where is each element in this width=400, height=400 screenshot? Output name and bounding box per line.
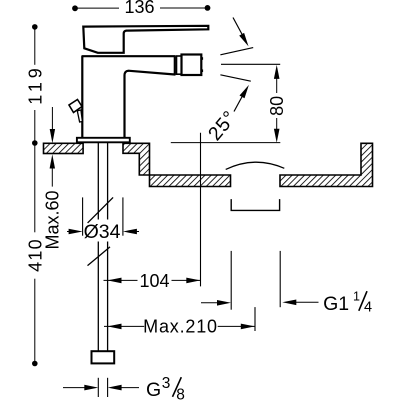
supply pipe left line [97, 142, 99, 351]
extension line drain center [254, 307, 256, 331]
dimension bottom dot [32, 361, 38, 367]
lower leader arrow [234, 94, 244, 112]
svg-text:Max.210: Max.210 [143, 317, 218, 337]
dimension 104 left arrow [108, 278, 122, 284]
svg-text:1: 1 [353, 289, 360, 303]
dimension 80 line [276, 75, 278, 132]
dimension top dot [32, 24, 38, 30]
counter level reference line [171, 142, 280, 144]
spray fan lower line [220, 75, 250, 81]
faucet handle lever [83, 26, 208, 53]
pop-up waste stem [77, 110, 82, 122]
spray fan middle line [221, 63, 280, 65]
dimension counter dot [32, 140, 38, 146]
dimension G3/8 right tick [107, 378, 109, 397]
dimension G1 1/4 arrow segment right [287, 301, 319, 303]
dimension Max.210 line [104, 325, 255, 327]
svg-text:136: 136 [124, 0, 154, 17]
svg-text:4: 4 [364, 300, 372, 316]
dimension O34 right tick [122, 197, 124, 235]
dimension G1 1/4 arrow segment left [201, 302, 226, 304]
dimension 136 right dot [205, 5, 211, 11]
countertop step section and basin floor left [123, 143, 231, 186]
aerator nub bottom [201, 69, 203, 72]
aerator nub top [201, 57, 203, 60]
dimension 119/410 vertical line [34, 27, 36, 364]
G3/8 nut [92, 351, 115, 363]
faucet body and spout [82, 56, 175, 138]
extension line drain right [279, 251, 281, 307]
dimension Max.210 left arrow [108, 324, 122, 330]
water surface arc [226, 162, 285, 169]
dimension 104 right arrow [186, 278, 200, 284]
spray fan upper line [220, 48, 253, 55]
dimension Max.60 lower arrow [51, 168, 53, 187]
pop-up waste knob [69, 100, 82, 113]
pipe break slash upper [88, 197, 114, 223]
faucet base plate [77, 138, 130, 143]
svg-text:Ø34: Ø34 [84, 221, 121, 243]
dimension Max.210 right arrow [241, 324, 255, 330]
dimension 136 left dot [72, 5, 78, 11]
dimension 80 top arrow [274, 65, 280, 79]
svg-text:104: 104 [139, 271, 169, 291]
svg-text:80: 80 [267, 96, 287, 116]
dimension 80 bottom arrow [274, 129, 280, 143]
dimension G3/8 left tick [97, 378, 99, 397]
svg-text:Max.60: Max.60 [43, 190, 63, 249]
countertop left slab [44, 143, 84, 153]
dimension O34 left arrow [67, 231, 72, 233]
pipe break slash lower [88, 247, 111, 266]
extension line drain left [230, 251, 232, 310]
aerator box [182, 55, 202, 76]
aerator connector [177, 56, 182, 74]
dimension O34 right arrow [133, 231, 139, 233]
svg-text:G1: G1 [323, 293, 349, 315]
dimension O34 left tick [82, 197, 84, 235]
dimension 136 line [75, 7, 208, 9]
dimension G3/8 left arrow [63, 387, 88, 389]
upper leader arrow [233, 18, 244, 38]
basin floor right and riser [280, 143, 373, 186]
drain bracket [231, 199, 279, 210]
dimension G3/8 right arrow [118, 387, 139, 389]
svg-text:8: 8 [176, 387, 185, 400]
svg-text:3: 3 [162, 375, 171, 392]
svg-text:G: G [146, 379, 161, 400]
dimension 104 line [104, 279, 201, 281]
dimension Max.60 upper arrow [51, 107, 53, 130]
svg-text:119: 119 [25, 64, 45, 104]
extension line at x=200.5 [200, 133, 202, 287]
supply pipe right line [107, 142, 109, 351]
